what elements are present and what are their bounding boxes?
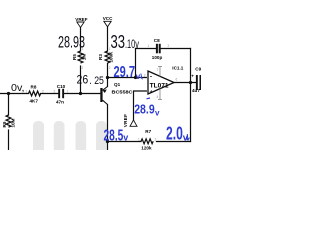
gray UI bar 3 xyxy=(76,121,87,150)
wire: C8 left horizontal xyxy=(136,48,156,50)
svg-text:1: 1 xyxy=(67,90,69,94)
wire: pin3 to VREF2 xyxy=(134,91,148,120)
op-amp power pin 7 stub xyxy=(158,67,162,77)
resistor R8 4K7 xyxy=(26,85,45,104)
svg-text:C9: C9 xyxy=(195,67,201,72)
svg-text:2: 2 xyxy=(144,74,146,78)
supply symbol VREF bottom (rotated) xyxy=(123,114,137,127)
pin tick pin2 xyxy=(146,76,148,78)
svg-text:6: 6 xyxy=(176,78,178,82)
handwritten 26.25 xyxy=(77,75,104,88)
wire: collector node to R7 xyxy=(108,141,142,143)
wire: node to op-amp pin2 xyxy=(108,77,148,79)
svg-text:IC1.1: IC1.1 xyxy=(172,66,183,71)
svg-text:4u7: 4u7 xyxy=(192,88,200,93)
wire: C8 right to feedback vertical xyxy=(160,48,190,50)
svg-text:47n: 47n xyxy=(56,99,64,104)
handwritten 33.10v xyxy=(111,32,140,52)
junction node rail/R9 xyxy=(7,92,10,95)
svg-text:1: 1 xyxy=(138,137,140,141)
svg-text:100K: 100K xyxy=(109,51,114,63)
svg-text:2: 2 xyxy=(109,66,111,70)
svg-text:R8: R8 xyxy=(31,85,37,90)
wire: rail between R8 and C10 xyxy=(41,93,59,95)
capacitor C10 47n xyxy=(54,84,69,105)
svg-text:29.7: 29.7 xyxy=(114,64,136,81)
svg-text:R3: R3 xyxy=(98,54,103,60)
svg-text:4K7: 4K7 xyxy=(30,98,39,103)
junction node collector/R7 xyxy=(106,140,109,143)
wire: R5 bottom to rail xyxy=(80,66,82,94)
wire: op-amp output xyxy=(174,82,196,84)
capacitor C9 4u7 (polarized, cut at edge) xyxy=(191,67,201,93)
op-amp IC1.1 TL071 xyxy=(144,66,184,96)
op-amp power pin 4 stub xyxy=(158,89,162,100)
svg-text:R7: R7 xyxy=(145,129,151,134)
resistor R5 1M xyxy=(72,47,87,70)
svg-text:33: 33 xyxy=(111,32,126,52)
svg-text:VREF: VREF xyxy=(123,114,128,127)
wire: VCC stem to R3 top xyxy=(107,27,109,51)
svg-text:10M: 10M xyxy=(11,118,16,127)
svg-text:VCC: VCC xyxy=(103,16,113,21)
svg-text:4: 4 xyxy=(157,95,159,99)
svg-text:C10: C10 xyxy=(57,84,66,89)
gray UI bar 4 xyxy=(96,121,107,150)
svg-text:1M: 1M xyxy=(82,54,87,61)
pin 7 label xyxy=(157,68,159,72)
handwritten 2.0v blue xyxy=(166,124,189,144)
svg-text:7: 7 xyxy=(157,68,159,72)
svg-text:1: 1 xyxy=(26,90,28,94)
supply symbol VREF top xyxy=(75,17,87,28)
capacitor C8 100p xyxy=(148,38,170,60)
wire: R9 bottom to page edge xyxy=(8,130,10,150)
handwritten 0v xyxy=(11,83,25,94)
resistor R3 100K xyxy=(98,47,113,70)
wire: C8 left vertical xyxy=(135,49,137,78)
svg-text:100p: 100p xyxy=(152,55,163,60)
svg-text:Q1: Q1 xyxy=(114,82,121,87)
svg-text:26: 26 xyxy=(77,75,89,87)
junction node R3/emitter xyxy=(106,76,109,79)
handwritten 28.93 xyxy=(58,34,85,52)
wire: rail C10 to Q1 base xyxy=(64,93,100,95)
resistor R7 120K xyxy=(138,129,157,150)
svg-text:+: + xyxy=(150,89,153,95)
svg-text:R9: R9 xyxy=(2,121,7,127)
gray UI bar 1 xyxy=(33,121,44,150)
pin tick pin3 xyxy=(146,90,148,92)
svg-text:28.9: 28.9 xyxy=(134,102,155,117)
svg-text:2: 2 xyxy=(42,90,44,94)
junction node rail/R5 xyxy=(79,92,82,95)
wire: R3 bottom to node xyxy=(107,64,109,78)
junction node output/feedback xyxy=(189,81,192,84)
wire: VREF stem to R5 top xyxy=(80,28,82,52)
svg-text:. 25: . 25 xyxy=(89,75,104,87)
pin 4 label xyxy=(157,95,159,99)
svg-text:+: + xyxy=(191,73,194,78)
wire: Q1 emitter vertical xyxy=(107,78,109,87)
svg-text:2: 2 xyxy=(155,137,157,141)
svg-text:2.0: 2.0 xyxy=(166,124,183,144)
wire: R7 to feedback vertical xyxy=(157,141,191,143)
svg-text:2: 2 xyxy=(168,44,170,48)
svg-text:120k: 120k xyxy=(141,145,152,150)
blue tick near pin3 xyxy=(147,97,151,100)
wire: R9 top to rail xyxy=(8,94,10,116)
gray UI bar 2 xyxy=(54,121,65,150)
svg-text:v: v xyxy=(123,133,128,143)
svg-text:0v,: 0v, xyxy=(11,83,25,94)
svg-text:2: 2 xyxy=(82,66,84,70)
svg-text:v: v xyxy=(155,108,160,117)
transistor Q1 BC558C (PNP) xyxy=(100,82,133,104)
handwritten 28.9v blue xyxy=(134,102,160,118)
svg-text:28.5: 28.5 xyxy=(104,127,124,144)
junction node C8/pin2 xyxy=(134,76,137,79)
svg-text:v: v xyxy=(136,72,141,81)
svg-text:1: 1 xyxy=(148,44,150,48)
svg-text:-: - xyxy=(150,74,152,81)
wire: Q1 collector vertical xyxy=(107,105,109,151)
svg-text:2: 2 xyxy=(54,90,56,94)
svg-text:R5: R5 xyxy=(72,54,77,60)
handwritten 28.5v blue xyxy=(104,127,129,144)
supply symbol VCC xyxy=(103,16,113,27)
handwritten 29.7v blue xyxy=(114,64,143,81)
svg-text:28.93: 28.93 xyxy=(58,34,85,52)
svg-text:.10v: .10v xyxy=(125,37,139,51)
resistor R9 10M xyxy=(2,115,16,127)
svg-text:VREF: VREF xyxy=(75,17,87,22)
svg-text:C8: C8 xyxy=(154,38,160,43)
svg-text:BC558C: BC558C xyxy=(112,89,134,94)
wire: bottom rail left segment xyxy=(0,93,29,95)
wire: feedback vertical xyxy=(190,49,192,142)
